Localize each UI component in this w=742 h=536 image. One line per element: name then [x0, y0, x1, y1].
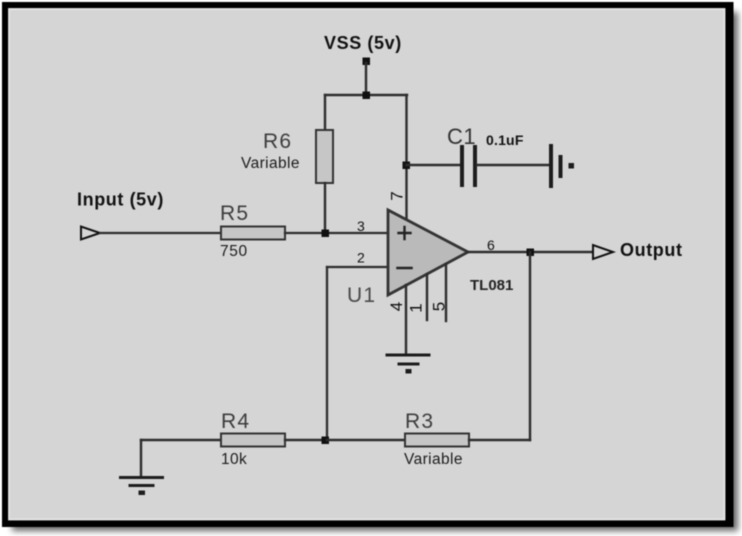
wire R6 bottom	[324, 183, 326, 233]
svg-text:6: 6	[487, 237, 495, 253]
svg-text:R5: R5	[220, 202, 249, 225]
wire pin7 drop	[405, 95, 407, 219]
svg-text:R6: R6	[263, 130, 292, 153]
wire pin2 vertical	[326, 267, 328, 440]
wire R4 left	[141, 439, 221, 441]
svg-text:Input (5v): Input (5v)	[77, 190, 164, 210]
VSS terminal dot	[363, 58, 371, 66]
svg-text:10k: 10k	[221, 451, 247, 468]
input terminal arrow	[81, 227, 100, 240]
resistor R6	[316, 130, 333, 183]
svg-text:C1: C1	[447, 124, 476, 149]
ground (sideways, at C1)	[551, 146, 574, 186]
node output junction	[527, 249, 535, 257]
svg-text:2: 2	[357, 250, 365, 266]
resistor R4	[221, 434, 285, 447]
wire feedback vertical	[529, 252, 531, 440]
wire R3 right	[469, 439, 530, 441]
svg-text:R3: R3	[405, 410, 434, 433]
node VSS rail junction	[363, 92, 371, 100]
svg-text:TL081: TL081	[470, 277, 513, 294]
svg-text:750: 750	[220, 243, 248, 260]
node feedback junction	[322, 437, 330, 445]
resistor R5	[221, 227, 285, 240]
wire input	[100, 232, 221, 234]
resistor R3	[405, 434, 469, 447]
svg-text:7: 7	[388, 191, 407, 200]
ground (left)	[121, 478, 163, 496]
svg-text:Variable: Variable	[404, 451, 463, 468]
wire top rail	[325, 94, 407, 96]
svg-text:0.1uF: 0.1uF	[486, 132, 524, 148]
node input junction	[322, 230, 330, 238]
svg-text:1: 1	[407, 303, 426, 312]
wire pin1 stub	[426, 274, 428, 320]
node C1 junction	[403, 162, 411, 170]
wire R4 to junction	[285, 439, 327, 441]
wire R6 top	[324, 95, 326, 131]
svg-text:Variable: Variable	[241, 155, 300, 172]
svg-text:3: 3	[357, 218, 365, 234]
output terminal arrow	[593, 245, 613, 259]
op-amp U1	[388, 210, 468, 295]
wire C1 right	[477, 164, 549, 166]
wire output	[468, 251, 593, 253]
wire left ground drop	[140, 440, 142, 477]
svg-text:Output: Output	[620, 240, 683, 260]
wire VSS stub	[365, 63, 367, 95]
capacitor C1	[462, 147, 475, 185]
svg-text:4: 4	[387, 302, 406, 311]
wire C1 left	[407, 164, 461, 166]
ground (op-amp pin4)	[387, 355, 429, 374]
wire pin2 horizontal	[327, 266, 388, 268]
wire pin4	[405, 285, 407, 354]
svg-text:R4: R4	[221, 410, 250, 433]
svg-text:U1: U1	[347, 284, 376, 307]
wire R5 to pin3	[285, 232, 388, 234]
wire pin5 stub	[445, 264, 447, 321]
wire junction to R3	[327, 439, 405, 441]
svg-text:VSS (5v): VSS (5v)	[324, 33, 402, 53]
